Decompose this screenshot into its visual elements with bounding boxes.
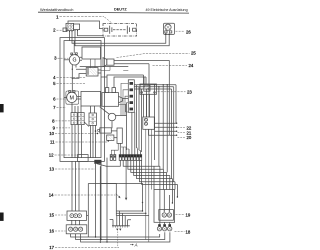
trailer cable arrow xyxy=(125,160,127,185)
wire M to solenoid xyxy=(77,96,81,99)
wire pair to socket 26 upper xyxy=(72,31,166,43)
binding mark upper xyxy=(0,104,4,112)
svg-text:18: 18 xyxy=(186,229,191,234)
wire bus to generator terminal xyxy=(73,41,75,54)
svg-text:G: G xyxy=(72,58,76,64)
svg-text:8: 8 xyxy=(52,118,55,123)
lamp unit 16 xyxy=(66,225,87,234)
svg-text:DEUTZ: DEUTZ xyxy=(114,8,127,12)
connector X2 xyxy=(71,113,77,125)
wire X4 up xyxy=(91,106,95,113)
svg-text:A: A xyxy=(134,242,138,247)
wires below panel to rear lamps xyxy=(72,162,79,212)
connector 22/21/20 xyxy=(143,117,155,129)
panel box outer xyxy=(60,38,104,162)
wire X1 right xyxy=(98,70,101,73)
wire X1 left xyxy=(72,69,86,78)
junction dots rear xyxy=(142,202,143,203)
switch S2 (item 2) body xyxy=(66,23,74,30)
svg-text:1: 1 xyxy=(56,14,59,19)
socket 26 xyxy=(164,23,175,34)
wires into pin row from above xyxy=(120,112,140,154)
staircase harness to rear xyxy=(97,160,120,166)
wire G down to M xyxy=(72,65,76,92)
switch S2 pin dots xyxy=(69,31,70,32)
wires fuse outputs left xyxy=(121,83,128,115)
generator terminals xyxy=(71,53,73,55)
wire G to regulator xyxy=(80,57,82,60)
svg-text:20: 20 xyxy=(187,135,192,140)
connector X4 xyxy=(89,113,96,125)
wires relay 23 pins xyxy=(144,75,150,117)
multi-pin connector row xyxy=(110,155,142,161)
light switch xyxy=(108,113,116,121)
wire arrow to trailer xyxy=(125,185,127,199)
svg-text:26: 26 xyxy=(186,30,191,35)
svg-text:Werkstatthandbuch: Werkstatthandbuch xyxy=(40,7,73,12)
wire M to bus xyxy=(64,96,67,98)
bottom centre box xyxy=(100,166,116,243)
regulator box xyxy=(82,47,101,59)
wires X2/X3 down through panel xyxy=(72,125,81,158)
resistor box A xyxy=(100,128,112,133)
ignition switch xyxy=(102,93,119,107)
svg-text:15: 15 xyxy=(49,213,54,218)
svg-text:16: 16 xyxy=(49,229,54,234)
svg-text:11: 11 xyxy=(50,140,55,145)
wire pair to socket 26 lower xyxy=(75,30,169,45)
starter M1 xyxy=(66,91,79,104)
svg-text:7: 7 xyxy=(53,105,56,110)
cross links to rear harness xyxy=(116,211,149,216)
svg-text:6: 6 xyxy=(53,97,56,102)
terminal dots mid xyxy=(95,130,97,132)
battery cell right xyxy=(127,26,129,34)
svg-text:17: 17 xyxy=(49,245,54,250)
horn H1 xyxy=(103,58,107,67)
wires fuse strip feed xyxy=(80,66,129,68)
svg-text:3: 3 xyxy=(54,56,57,61)
binding mark lower xyxy=(0,213,4,221)
junction dots below generator xyxy=(72,69,73,70)
wire S2 down to bus xyxy=(69,31,71,40)
dashed drop to 17 leader xyxy=(117,232,119,248)
svg-text:M: M xyxy=(70,95,75,101)
svg-text:12: 12 xyxy=(49,153,54,158)
label 14 arrowhead xyxy=(116,193,120,197)
distribution wires right of fuses xyxy=(134,85,176,89)
svg-text:4: 4 xyxy=(53,75,56,80)
starter solenoid box xyxy=(81,91,101,106)
wires to trailer socket labels xyxy=(149,123,177,135)
generator G1 xyxy=(69,55,79,65)
component box B xyxy=(107,135,114,140)
wire rear feed left xyxy=(88,184,118,238)
svg-text:14: 14 xyxy=(49,193,54,198)
battery cell left xyxy=(110,26,112,34)
ground node A label xyxy=(130,244,133,246)
switch S2 terminal circles xyxy=(67,25,69,27)
terminal block item 13 xyxy=(94,160,101,164)
wire solenoid to fuse area xyxy=(123,98,129,100)
wire to rear box left xyxy=(119,184,143,212)
starter terminals xyxy=(69,91,71,93)
svg-text:5: 5 xyxy=(53,81,56,86)
svg-text:49 Elektrische Ausrüstung: 49 Elektrische Ausrüstung xyxy=(146,8,188,12)
number plate lamp box 19 xyxy=(154,190,175,223)
svg-text:2: 2 xyxy=(53,28,56,33)
svg-text:9: 9 xyxy=(53,125,56,130)
connector X1 xyxy=(86,68,98,76)
wire panel to y77 xyxy=(101,76,107,78)
battery B1 (dash-dot outline) xyxy=(103,24,137,36)
wires M box to connectors xyxy=(72,103,81,113)
diagonal X3 to X4 xyxy=(84,122,89,127)
svg-text:19: 19 xyxy=(186,212,191,217)
vertical feeders xyxy=(137,77,147,152)
junction box (item 12) xyxy=(78,155,89,162)
relay 23 xyxy=(140,84,157,94)
battery terminal stubs xyxy=(104,28,108,31)
wires regulator to connector X1 xyxy=(91,59,96,68)
wire generator to bus xyxy=(64,59,69,61)
wire S2 feed top xyxy=(68,21,103,29)
wire S2 to battery lower xyxy=(78,30,104,35)
tail lamp unit 15 xyxy=(67,211,87,220)
svg-text:24: 24 xyxy=(189,63,194,68)
wires X4 down xyxy=(91,125,96,157)
panel box inner xyxy=(64,41,101,158)
fuse strip xyxy=(128,80,134,113)
connector X3 xyxy=(78,113,84,125)
ground bus node A xyxy=(113,211,128,226)
battery centre link xyxy=(113,29,127,31)
vertical harness bundle xyxy=(153,85,156,190)
horn wires xyxy=(114,60,169,63)
svg-text:13: 13 xyxy=(49,167,54,172)
header rule xyxy=(38,11,189,14)
svg-text:10: 10 xyxy=(49,131,54,136)
bottom link wires xyxy=(71,234,160,237)
svg-text:23: 23 xyxy=(187,90,192,95)
ignition switch wires up xyxy=(107,75,146,88)
svg-text:25: 25 xyxy=(191,51,196,56)
regulator column box xyxy=(117,128,122,143)
rear lamp cluster 18 xyxy=(158,224,161,226)
wires 15 to 16 xyxy=(72,220,80,224)
